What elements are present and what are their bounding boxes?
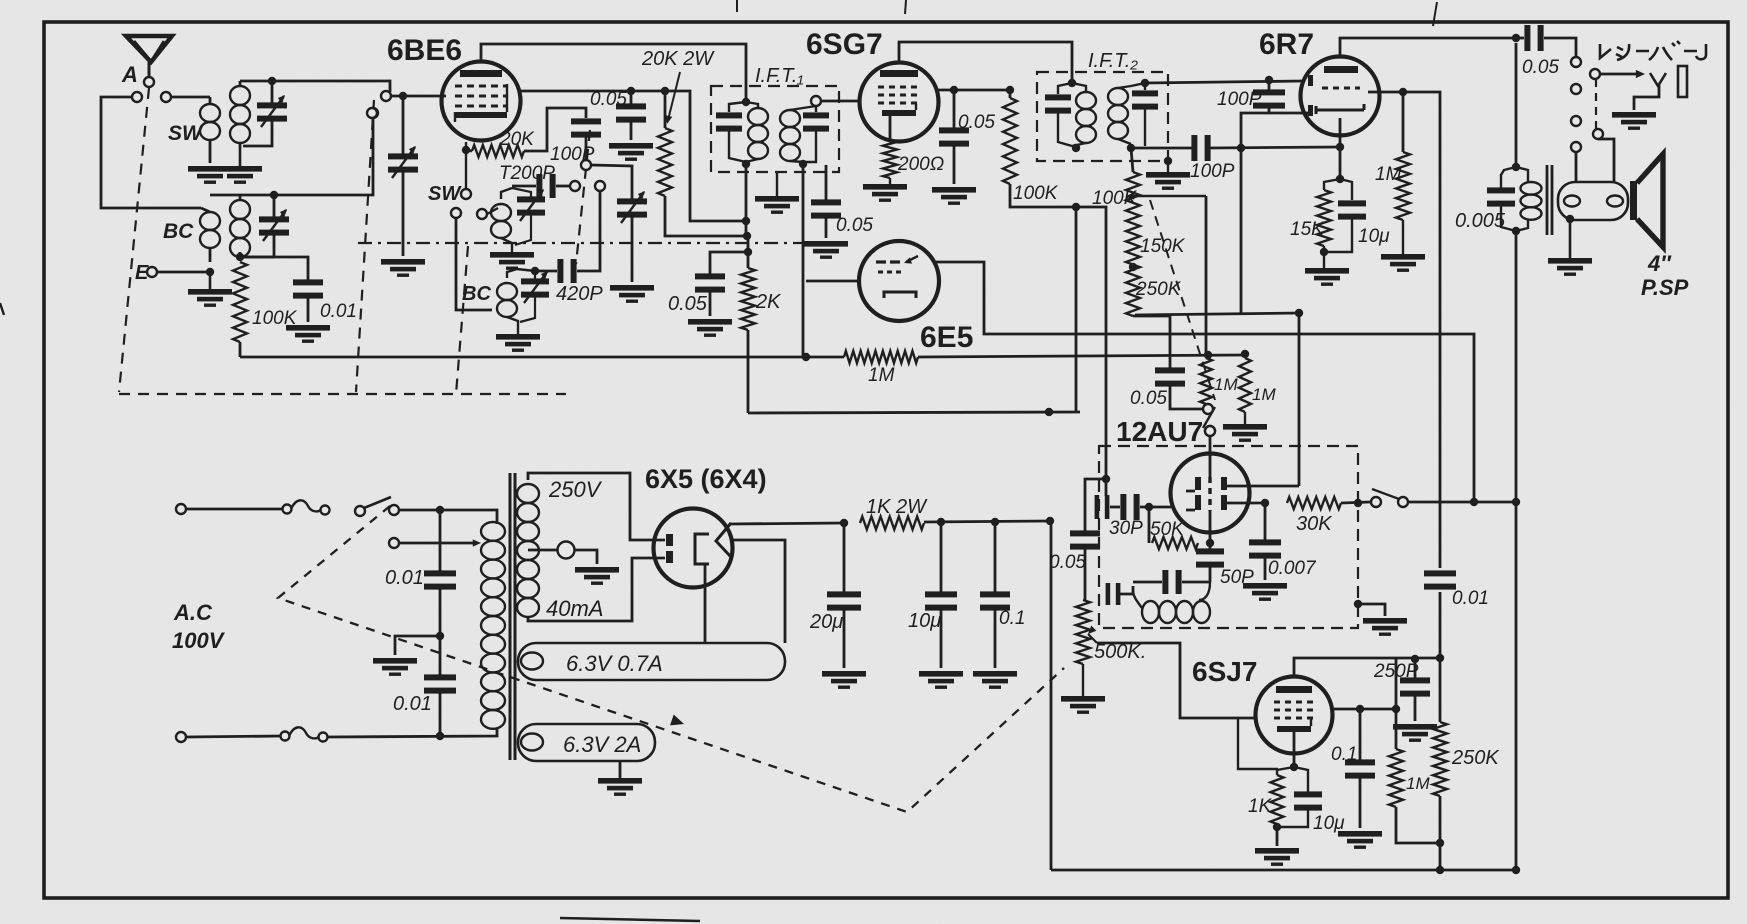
line tap <box>389 538 481 548</box>
svg-text:100K: 100K <box>1092 188 1138 209</box>
label 1M <box>1406 774 1430 793</box>
wire heater right <box>730 540 785 643</box>
svg-text:10μ: 10μ <box>1358 226 1390 247</box>
capacitor 100P 6R7 grid <box>1253 80 1285 113</box>
label 50P <box>1220 567 1254 588</box>
node <box>1411 655 1419 663</box>
svg-text:20K: 20K <box>499 129 535 150</box>
capacitor 100P coupling <box>1191 135 1210 161</box>
6E5 internals <box>876 256 918 298</box>
node <box>1141 79 1149 87</box>
switch lever <box>1203 407 1215 428</box>
capacitor 0.01 antenna <box>240 257 323 322</box>
svg-text:6.3V 0.7A: 6.3V 0.7A <box>566 651 663 676</box>
node <box>1512 498 1520 506</box>
wire <box>171 96 210 99</box>
label receiver-J katakana <box>1600 41 1706 60</box>
tube 6X5 <box>654 509 733 588</box>
svg-text:A: A <box>121 62 138 87</box>
coil L1 SW antenna primary <box>200 97 220 163</box>
label 0.05 <box>668 293 708 315</box>
capacitor 0.1 <box>1345 709 1375 828</box>
node <box>1261 499 1269 507</box>
label 100P <box>1190 161 1235 182</box>
wire <box>399 510 497 524</box>
ground <box>804 241 848 259</box>
label 10u <box>1313 813 1345 834</box>
node <box>1102 475 1110 483</box>
speaker <box>1630 154 1663 247</box>
node <box>799 160 807 168</box>
transformer core <box>1547 165 1552 235</box>
svg-text:SW: SW <box>428 183 462 205</box>
svg-text:100P: 100P <box>1217 89 1262 110</box>
node <box>937 518 945 526</box>
IFT2 primary <box>1045 83 1096 146</box>
power switch <box>355 497 399 516</box>
volume pot 100K <box>1126 148 1140 316</box>
HV center tap <box>528 542 597 565</box>
label 1M <box>1214 375 1238 394</box>
coil L2 BC antenna secondary <box>230 195 250 258</box>
capacitor 0.1 filter <box>980 522 1010 668</box>
svg-text:0.05: 0.05 <box>1130 388 1167 409</box>
wire <box>1341 502 1370 503</box>
svg-text:1M: 1M <box>868 365 895 386</box>
ground <box>1363 618 1407 636</box>
pot wiper arrow <box>1126 192 1206 199</box>
resistor 1M AVC <box>240 351 1245 363</box>
node <box>1470 498 1478 506</box>
node <box>1566 215 1574 223</box>
dial cord arrow <box>670 715 684 726</box>
ground <box>1243 583 1287 601</box>
capacitor 0.007 <box>1249 503 1281 580</box>
switch contact <box>1371 497 1381 507</box>
wire 6E5 grid <box>806 280 859 283</box>
svg-text:200Ω: 200Ω <box>897 154 944 175</box>
6SG7 internals <box>878 70 918 116</box>
svg-text:1K: 1K <box>1248 796 1273 817</box>
terminal E <box>135 262 157 284</box>
label 500K <box>1094 641 1146 663</box>
capacitor 0.05 AVC <box>811 165 841 238</box>
svg-text:1M: 1M <box>1406 774 1430 793</box>
node <box>1356 705 1364 713</box>
capacitor 0.01 line lower <box>424 636 456 736</box>
dial cord dashed <box>278 506 1064 812</box>
node <box>1436 866 1444 874</box>
coil BC oscillator <box>497 269 518 330</box>
wire 6E5 target <box>936 262 1474 502</box>
node <box>1046 517 1054 525</box>
phono terminal <box>1205 426 1215 436</box>
label 6.3V 2A <box>563 732 641 757</box>
terminal IFT1 secondary top <box>811 96 821 106</box>
svg-text:40mA: 40mA <box>546 596 603 621</box>
IFT1 secondary <box>780 106 829 162</box>
wire <box>1575 152 1578 182</box>
svg-text:0.01: 0.01 <box>320 301 357 322</box>
label 12AU7 <box>1116 416 1203 447</box>
page mark <box>905 0 906 14</box>
svg-text:6BE6: 6BE6 <box>387 34 462 67</box>
node <box>1512 34 1520 42</box>
wire 6BE6 screen <box>520 90 631 93</box>
12AU7 dashed box <box>1099 446 1358 628</box>
svg-text:100K: 100K <box>1013 183 1059 204</box>
IFT1 dashed box <box>711 86 839 172</box>
node <box>1512 866 1520 874</box>
svg-text:0.1: 0.1 <box>999 608 1025 629</box>
wire screen bus down <box>1075 207 1078 412</box>
capacitor 10u <box>1324 179 1366 252</box>
svg-text:1M: 1M <box>1252 385 1276 404</box>
label 1M <box>1252 385 1276 404</box>
capacitor 0.05 output <box>1516 25 1576 56</box>
wire <box>210 194 274 197</box>
label 50K <box>1150 519 1185 540</box>
input pad <box>1095 495 1110 519</box>
band switch contact <box>451 208 461 218</box>
node <box>1336 175 1344 183</box>
page mark <box>560 918 700 921</box>
label 0.01 <box>320 301 357 322</box>
label 2K <box>755 291 782 313</box>
capacitor 10u filter <box>925 522 957 668</box>
ground <box>218 148 262 184</box>
pad capacitor <box>1106 583 1133 605</box>
label 250K <box>1135 279 1182 300</box>
wire <box>1403 92 1440 568</box>
capacitor 250P <box>1400 659 1430 721</box>
pot junction <box>1129 263 1137 271</box>
label 0.01 <box>393 693 432 715</box>
svg-text:0.01: 0.01 <box>393 693 432 715</box>
svg-text:6.3V 2A: 6.3V 2A <box>563 732 641 757</box>
ground <box>932 187 976 205</box>
ground <box>286 325 330 343</box>
ground <box>1255 848 1299 866</box>
node <box>1068 79 1076 87</box>
ground <box>973 671 1017 689</box>
label P.SP <box>1641 275 1689 300</box>
node <box>661 87 669 95</box>
feedback capacitor <box>1133 570 1210 594</box>
antenna switch contact right <box>161 92 171 102</box>
wire 6R7 diode1 <box>1241 113 1312 148</box>
band switch contact <box>381 91 391 101</box>
tube 6SJ7 <box>1256 677 1333 754</box>
node BC-coil top <box>270 191 278 199</box>
svg-text:I.F.T.₁: I.F.T.₁ <box>755 65 804 87</box>
node <box>840 519 848 527</box>
node <box>1241 350 1249 358</box>
wire 6SJ7 cathode <box>1293 732 1296 767</box>
gang linkage dashed <box>119 393 566 395</box>
node <box>531 267 539 275</box>
svg-text:10μ: 10μ <box>1313 813 1345 834</box>
wire 6R7 cathode <box>1339 118 1342 179</box>
gang linkage dashed <box>576 130 590 264</box>
wire wiper down <box>1205 196 1208 354</box>
ground box corner <box>1354 600 1385 616</box>
label 0.05 <box>958 112 995 133</box>
transformer HV secondary <box>517 473 665 621</box>
label 0.05 <box>1130 388 1167 409</box>
wire <box>1010 184 1106 496</box>
capacitor 0.01 tone <box>1424 570 1456 589</box>
node <box>1436 654 1444 662</box>
svg-text:P.SP: P.SP <box>1641 275 1689 300</box>
page mark <box>1433 2 1437 26</box>
switch contact <box>1398 497 1408 507</box>
label SW osc <box>428 183 462 205</box>
label I.F.T.1 <box>755 65 804 87</box>
label A <box>121 62 138 87</box>
capacitor 0.05 6SG7 <box>939 90 969 184</box>
ground <box>1305 246 1349 286</box>
wire <box>1298 313 1301 486</box>
oscillator coil <box>1133 582 1210 623</box>
svg-text:30K: 30K <box>1296 513 1333 535</box>
tube 6SG7 <box>860 63 939 142</box>
ground <box>1061 664 1105 714</box>
wire 6SJ7 plate <box>1294 658 1444 677</box>
label BC osc <box>462 283 491 305</box>
svg-text:0.05: 0.05 <box>668 293 708 315</box>
wire IFT1 sec to 6SG7 grid <box>821 100 861 103</box>
tube 12AU7 <box>1171 454 1250 533</box>
pot dashed link <box>1150 200 1215 400</box>
output transformer secondary <box>1558 182 1628 220</box>
capacitor 30P <box>1110 494 1171 520</box>
ground <box>373 658 417 676</box>
node <box>742 160 750 168</box>
svg-text:6X5 (6X4): 6X5 (6X4) <box>645 464 767 494</box>
band switch contact <box>477 209 487 219</box>
wire <box>1209 147 1340 148</box>
resistor 100K antenna <box>233 262 247 342</box>
wire 6X5 cathode out <box>729 523 844 524</box>
jack contact <box>1571 142 1581 152</box>
svg-text:420P: 420P <box>556 283 603 305</box>
wire heater left <box>704 564 707 643</box>
capacitor 20u <box>827 523 861 668</box>
svg-text:250V: 250V <box>548 477 603 502</box>
resistor 20K 2W <box>658 91 746 236</box>
label 20u <box>809 611 843 633</box>
wire <box>101 97 201 208</box>
label 0.01 <box>385 567 424 589</box>
svg-text:6E5: 6E5 <box>920 321 973 354</box>
gang linkage dashed <box>456 246 468 394</box>
resistor 100K screen <box>1003 90 1017 184</box>
label 250P <box>1373 661 1419 682</box>
label 250K <box>1451 747 1500 769</box>
node <box>743 232 751 240</box>
jack contact <box>1571 84 1581 94</box>
wire IFT2 sec top to 6R7 grid <box>1145 81 1303 83</box>
label 0.007 <box>1268 558 1317 579</box>
wire <box>186 508 284 511</box>
gang linkage dash-dot <box>358 242 830 244</box>
6R7 internals <box>1308 66 1364 116</box>
svg-text:0.05: 0.05 <box>958 112 995 133</box>
svg-text:20K 2W: 20K 2W <box>641 48 715 70</box>
jack contact <box>1571 116 1581 126</box>
ground <box>609 143 653 161</box>
band switch contact <box>581 160 591 170</box>
jack contact <box>1571 57 1581 67</box>
label 0.005 <box>1455 210 1506 232</box>
jack dashed link <box>1595 79 1597 129</box>
node BC-coil bottom <box>236 253 244 261</box>
label 100K upper <box>1092 188 1138 209</box>
wire <box>517 269 535 271</box>
node <box>1237 144 1245 152</box>
node <box>1006 86 1014 94</box>
label 10u <box>908 610 941 632</box>
variable capacitor C-gang2 RF <box>388 96 418 256</box>
ground <box>1381 220 1425 272</box>
svg-text:30P: 30P <box>1109 518 1143 539</box>
coil L1 SW antenna secondary <box>230 81 250 148</box>
label 15K <box>1290 219 1325 240</box>
output transformer primary <box>1501 167 1542 231</box>
capacitor 0.05 audio <box>1070 479 1106 600</box>
variable capacitor C-gang1 BC <box>259 195 289 257</box>
label 6E5 <box>920 321 973 354</box>
wire 6R7 diode2 <box>1368 91 1403 94</box>
6BE6 internals <box>455 70 507 122</box>
phone plug <box>1600 66 1687 110</box>
wire <box>240 256 274 259</box>
label 100K <box>252 308 298 329</box>
resistor 1M diode load <box>1396 92 1410 220</box>
switch contact <box>1205 426 1215 436</box>
label 420P <box>556 283 603 305</box>
node <box>436 732 444 740</box>
ground <box>575 567 619 585</box>
tube 6BE6 <box>442 62 521 141</box>
node <box>1512 163 1520 171</box>
ground <box>598 761 642 796</box>
page mark <box>0 303 4 315</box>
label 6X5 (6X4) <box>645 464 767 494</box>
svg-text:0.05: 0.05 <box>836 215 873 236</box>
svg-text:I.F.T.₂: I.F.T.₂ <box>1088 50 1138 72</box>
ground <box>490 248 534 270</box>
ground <box>381 259 425 277</box>
label 4inch <box>1647 251 1672 276</box>
label 0.01 <box>1452 588 1489 609</box>
6SJ7 internals <box>1274 686 1314 732</box>
IFT2 dashed box <box>1037 72 1168 161</box>
node <box>950 86 958 94</box>
ground <box>688 319 732 337</box>
wire wiper to 6SJ7 <box>1097 643 1256 718</box>
svg-text:100V: 100V <box>172 628 226 653</box>
capacitor 0.005 <box>1487 174 1515 228</box>
svg-text:BC: BC <box>462 283 491 305</box>
band switch contact <box>595 181 605 191</box>
label 100V <box>172 628 226 653</box>
band switch contact <box>368 108 378 118</box>
IFT2 secondary <box>1108 83 1158 146</box>
label 6R7 <box>1259 28 1314 61</box>
fuse upper <box>283 500 330 514</box>
band switch contact <box>570 181 580 191</box>
node <box>991 518 999 526</box>
svg-text:6SJ7: 6SJ7 <box>1192 656 1257 687</box>
label 20K 2W <box>641 48 715 70</box>
wire <box>274 118 373 195</box>
wire <box>186 736 282 737</box>
svg-text:1M: 1M <box>1375 164 1402 185</box>
svg-text:0.005: 0.005 <box>1455 210 1506 232</box>
capacitor 0.05 phono <box>1155 367 1202 409</box>
jack contact <box>1593 129 1603 139</box>
wire jack to OPT <box>1598 139 1614 182</box>
resistor 15K <box>1317 179 1340 246</box>
ground <box>1612 112 1656 130</box>
terminal A <box>144 77 154 87</box>
ground <box>1393 724 1437 742</box>
label 30P <box>1109 518 1143 539</box>
node <box>1045 408 1053 416</box>
ground <box>919 671 963 689</box>
node <box>1354 499 1362 507</box>
resistor 200ohm cathode <box>883 116 897 178</box>
capacitor 100P osc grid <box>571 118 601 160</box>
node <box>1399 88 1407 96</box>
wire screen feed <box>631 91 746 221</box>
tube 6E5 <box>859 241 939 321</box>
gang linkage dashed <box>356 100 374 392</box>
bottom B+ bus <box>1051 869 1516 872</box>
node <box>1436 839 1444 847</box>
label 0.1 <box>1331 744 1357 765</box>
svg-text:12AU7: 12AU7 <box>1116 416 1203 447</box>
wire <box>327 728 497 737</box>
wire <box>395 636 440 655</box>
label 0.05 <box>590 89 627 110</box>
label 1M <box>868 365 895 386</box>
wire B+ mid bus <box>748 412 1080 413</box>
AC terminal lower <box>176 732 186 742</box>
page mark <box>736 0 738 12</box>
ground IFT2 <box>1146 157 1190 190</box>
tube 6R7 <box>1301 57 1380 136</box>
heater winding 0.7A <box>518 643 785 680</box>
wire 6BE6 plate to top bus <box>481 44 746 102</box>
label 1M <box>1375 164 1402 185</box>
transformer primary <box>481 522 505 729</box>
resistor 2K <box>741 236 755 413</box>
node <box>1320 248 1328 256</box>
node <box>1265 76 1273 84</box>
node <box>742 98 750 106</box>
svg-text:0.01: 0.01 <box>385 567 424 589</box>
svg-text:0.007: 0.007 <box>1268 558 1317 579</box>
AC terminal upper <box>176 504 186 514</box>
label A.C <box>173 600 213 625</box>
band switch contact <box>461 189 471 199</box>
IFT1 primary <box>716 102 768 162</box>
node <box>1295 309 1303 317</box>
node <box>1512 227 1520 235</box>
